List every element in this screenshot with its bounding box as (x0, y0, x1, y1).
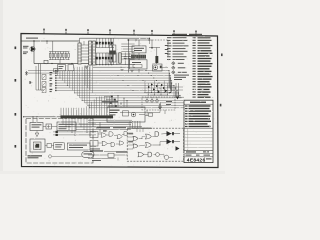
svg-text:4E8426: 4E8426 (187, 157, 206, 163)
